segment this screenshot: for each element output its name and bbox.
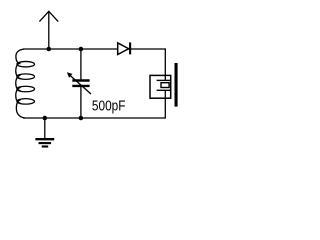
svg-text:500pF: 500pF bbox=[92, 98, 126, 114]
